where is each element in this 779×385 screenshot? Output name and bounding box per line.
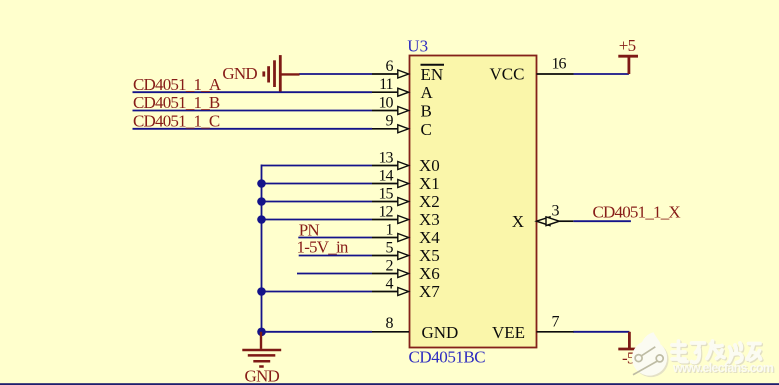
svg-text:CD4051_1_X: CD4051_1_X: [593, 203, 681, 222]
svg-text:EN: EN: [421, 65, 444, 84]
svg-text:GND: GND: [422, 323, 459, 342]
svg-text:+5: +5: [619, 36, 636, 55]
svg-text:1: 1: [386, 222, 394, 239]
svg-text:11: 11: [379, 76, 393, 93]
svg-text:X7: X7: [419, 282, 440, 301]
svg-text:X: X: [512, 212, 524, 231]
svg-text:X1: X1: [419, 174, 440, 193]
svg-text:3: 3: [552, 203, 560, 220]
svg-text:X6: X6: [419, 264, 440, 283]
svg-text:14: 14: [379, 168, 394, 185]
svg-text:X3: X3: [419, 210, 440, 229]
svg-text:C: C: [421, 120, 432, 139]
svg-text:CD4051_1_C: CD4051_1_C: [133, 111, 220, 130]
svg-text:2: 2: [386, 258, 394, 275]
svg-text:PN: PN: [299, 220, 320, 239]
svg-text:VCC: VCC: [490, 65, 525, 84]
svg-text:16: 16: [552, 56, 567, 73]
svg-text:X4: X4: [419, 228, 440, 247]
svg-text:6: 6: [386, 58, 394, 75]
svg-text:5: 5: [386, 240, 394, 257]
svg-text:VEE: VEE: [492, 323, 525, 342]
svg-text:U3: U3: [407, 37, 428, 56]
svg-text:CD4051BC: CD4051BC: [409, 348, 486, 367]
svg-text:X0: X0: [419, 156, 440, 175]
svg-text:9: 9: [386, 113, 394, 130]
svg-text:A: A: [421, 83, 434, 102]
svg-text:13: 13: [379, 150, 394, 167]
svg-text:www.elecfans.com: www.elecfans.com: [672, 361, 774, 375]
svg-text:15: 15: [379, 186, 394, 203]
svg-text:CD4051_1_B: CD4051_1_B: [133, 93, 220, 112]
svg-text:1-5V_in: 1-5V_in: [297, 238, 349, 257]
svg-text:CD4051_1_A: CD4051_1_A: [133, 75, 222, 94]
svg-text:X2: X2: [419, 192, 440, 211]
svg-text:7: 7: [552, 314, 560, 331]
svg-text:GND: GND: [245, 367, 280, 385]
svg-text:8: 8: [386, 315, 394, 332]
svg-text:GND: GND: [222, 64, 257, 83]
svg-text:12: 12: [379, 204, 394, 221]
svg-text:B: B: [421, 102, 432, 121]
svg-text:10: 10: [379, 94, 394, 111]
svg-text:4: 4: [386, 276, 394, 293]
svg-text:X5: X5: [419, 246, 440, 265]
